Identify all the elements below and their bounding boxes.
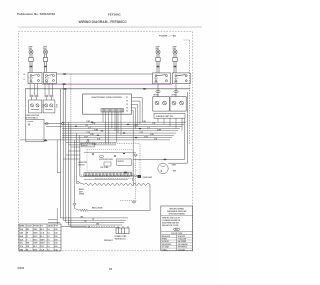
EOC clock box (83, 94, 132, 114)
svg-text:POWER □□—(N): POWER □□—(N) (159, 35, 176, 38)
svg-text:P5: P5 (126, 110, 128, 112)
svg-text:SWITCH: SWITCH (78, 164, 85, 166)
left vertical bus (61, 84, 71, 228)
clock drop wires (103, 112, 121, 144)
bus wire L2 (25, 88, 190, 90)
svg-text:OVEN LIGHT SW: OVEN LIGHT SW (26, 115, 40, 117)
svg-text:105: 105 (54, 243, 57, 245)
junction blob N (62, 83, 66, 85)
console tick marks (92, 153, 125, 157)
harness wire row 6 (62, 132, 176, 134)
console bus stubs (63, 147, 80, 159)
power cord terminal (116, 226, 129, 234)
svg-text:17 OR: 17 OR (139, 132, 143, 134)
svg-text:15 Y: 15 Y (147, 127, 150, 129)
connector oval left A2 (35, 95, 39, 97)
bake junction (76, 182, 79, 184)
oven lamp (158, 163, 168, 173)
console inner relay 1 (81, 143, 94, 147)
bus wire magenta (42, 83, 172, 85)
svg-text:18 BL: 18 BL (150, 134, 154, 136)
svg-text:W: W (26, 233, 28, 235)
wire switch2 to receptacle (45, 84, 53, 101)
switch terminal labels (24, 74, 26, 81)
svg-text:PR PURPLE: PR PURPLE (178, 247, 187, 249)
dark oval on console wire (124, 172, 127, 174)
right flat label box (154, 113, 185, 118)
svg-text:2 R: 2 R (92, 219, 94, 221)
surface unit LR (43, 50, 47, 73)
broil wire (89, 209, 150, 211)
svg-text:105: 105 (54, 229, 57, 231)
svg-text:MOTOR: MOTOR (118, 161, 125, 163)
svg-text:12 BK: 12 BK (86, 121, 90, 123)
svg-text:H1 L1: H1 L1 (30, 78, 34, 80)
svg-text:16: 16 (47, 239, 49, 241)
receptacle box left 1 (29, 100, 42, 113)
svg-text:EL3: EL3 (33, 246, 36, 248)
svg-text:RF REC: RF REC (154, 95, 159, 97)
svg-text:OVEN: OVEN (172, 164, 176, 166)
harness wire row 8 (62, 137, 172, 139)
connector oval right B (174, 91, 178, 93)
svg-text:SURFACE UNIT SW: SURFACE UNIT SW (156, 115, 173, 118)
svg-text:V VIOLET: V VIOLET (178, 249, 185, 251)
bus wire L1 (57, 73, 153, 75)
flat box drops right (158, 118, 182, 131)
svg-text:16 BR: 16 BR (94, 130, 98, 132)
console inner dashed box (87, 150, 133, 172)
dashed stub row (95, 177, 133, 179)
console terminal strip (84, 173, 132, 176)
harness wire row 1 (62, 121, 186, 123)
junction triangle at light box (44, 139, 48, 141)
svg-text:16: 16 (47, 236, 49, 238)
svg-text:6/104: 6/104 (18, 266, 25, 270)
svg-text:H1 L1: H1 L1 (45, 78, 49, 80)
chassis dashed line (188, 40, 190, 145)
surface unit RR (29, 50, 33, 73)
harness wire labels (84, 121, 161, 146)
right vertical runs (182, 92, 188, 163)
svg-text:105: 105 (54, 249, 57, 251)
junction oval B (61, 123, 64, 125)
svg-text:EL2: EL2 (40, 229, 43, 231)
broil element (75, 205, 89, 211)
oven light switch box (26, 119, 44, 142)
cut line (61, 225, 86, 227)
svg-text:SURF: SURF (173, 47, 177, 49)
below console wires (80, 177, 130, 180)
svg-text:EL1: EL1 (40, 236, 43, 238)
junction blob L2a (63, 88, 67, 90)
svg-text:H1 L1: H1 L1 (155, 78, 159, 80)
connector oval left B (45, 95, 49, 97)
svg-text:UNIT: UNIT (41, 104, 43, 108)
svg-text:BL BLUE: BL BLUE (162, 241, 169, 243)
svg-text:BR BROWN: BR BROWN (162, 244, 172, 246)
svg-text:WIRING DIAGRAM - FEF366CC: WIRING DIAGRAM - FEF366CC (79, 20, 128, 24)
header rule (18, 26, 202, 28)
svg-text:SW1: SW1 (33, 229, 37, 231)
svg-text:L1: L1 (24, 74, 26, 76)
harness wire row 4 (62, 128, 180, 130)
wire rswitch1 to receptacle (157, 84, 159, 97)
svg-text:200: 200 (54, 236, 57, 238)
svg-text:TERM BLOCK: TERM BLOCK (115, 238, 127, 240)
infinite switch left 2 (44, 73, 57, 84)
svg-text:17 OR: 17 OR (86, 132, 90, 134)
svg-text:UNIT: UNIT (55, 104, 57, 108)
svg-text:16 BR: 16 BR (157, 130, 161, 132)
console inner relay 2 (117, 159, 132, 166)
node oval mid (134, 154, 137, 156)
bottom harness wires (61, 218, 128, 228)
lamp drop small circle (132, 131, 134, 186)
svg-text:WIRE: WIRE (20, 226, 26, 228)
row junction ovals (75, 122, 142, 141)
dashed bus drop (70, 74, 72, 124)
svg-text:EOC: EOC (33, 236, 38, 238)
unit connector ovals (29, 66, 176, 67)
svg-text:SW3: SW3 (40, 239, 44, 241)
connector oval right A (156, 91, 160, 93)
infinite switch right 1 (153, 73, 171, 84)
svg-text:GAGE: GAGE (47, 225, 53, 228)
harness wire row 3 (46, 125, 182, 127)
wire rswitch2 to receptacle (175, 84, 177, 97)
console oval (99, 155, 103, 157)
infinite switch left 1 (28, 73, 42, 84)
svg-text:15 Y: 15 Y (88, 127, 91, 129)
console small box B (104, 162, 111, 166)
harness wire row 5 (62, 130, 178, 132)
svg-text:TOD 12 BK: TOD 12 BK (100, 167, 109, 169)
svg-text:H1 L1: H1 L1 (174, 78, 178, 80)
wiring table (19, 224, 61, 251)
svg-text:Publication No. 5995A0581: Publication No. 5995A0581 (17, 12, 56, 16)
receptacle box left 2 (43, 100, 55, 113)
wire lightsw to bus (44, 123, 62, 125)
svg-text:EOC: EOC (33, 239, 38, 241)
broil junction (73, 203, 76, 205)
junction blob L1 (63, 73, 67, 75)
console dashed box (80, 144, 140, 176)
svg-text:CLK: CLK (40, 249, 45, 251)
connector oval left A (30, 95, 34, 97)
svg-text:FEF366C: FEF366C (108, 12, 122, 16)
junction blob L2b (143, 88, 147, 90)
receptacle box right 1 (153, 97, 170, 111)
svg-text:19 GY: 19 GY (144, 136, 148, 138)
EOC pin labels (126, 97, 128, 112)
console wire a (84, 152, 136, 154)
svg-text:1 BK: 1 BK (80, 217, 83, 219)
surface unit RF (156, 50, 160, 73)
receptacle box right 2 (170, 97, 186, 111)
svg-text:P H2: P H2 (45, 82, 48, 84)
svg-text:SURF: SURF (43, 47, 47, 49)
svg-text:UNIT: UNIT (79, 191, 83, 193)
svg-text:N: N (24, 79, 25, 81)
svg-text:SELECTOR: SELECTOR (78, 162, 87, 164)
svg-text:GN GREEN: GN GREEN (178, 241, 187, 243)
svg-text:200: 200 (54, 239, 57, 241)
lamp wires (133, 158, 185, 160)
surface unit LF (173, 50, 177, 73)
harness wire row 2 (62, 123, 184, 125)
legend box (161, 206, 193, 251)
svg-text:P3: P3 (126, 104, 128, 106)
svg-text:ELECTRONIC OVEN CONTROL: ELECTRONIC OVEN CONTROL (92, 97, 124, 99)
connector oval left B2 (50, 95, 54, 97)
svg-text:FROM: FROM (33, 226, 39, 228)
harness wire row 10 (66, 142, 116, 144)
table feed stubs (48, 208, 60, 224)
svg-text:12 BK: 12 BK (142, 121, 146, 123)
svg-text:SURF: SURF (156, 47, 160, 49)
svg-text:LF REC: LF REC (172, 95, 177, 97)
svg-text:R RED: R RED (162, 239, 168, 241)
svg-text:18: 18 (109, 267, 113, 271)
svg-text:TB2: TB2 (33, 249, 37, 251)
wire switch1 to receptacle (30, 84, 37, 101)
lamp connector (138, 175, 142, 178)
svg-text:WITH EACH RANGE: WITH EACH RANGE (169, 213, 186, 216)
dashed stub to cord (120, 200, 136, 202)
svg-text:COLR: COLR (26, 226, 32, 228)
svg-text:BELOW FOR COLOR.: BELOW FOR COLOR. (162, 225, 179, 227)
harness wire row 7 (62, 134, 174, 136)
bake element (79, 183, 150, 186)
dashed page frame (19, 32, 193, 251)
svg-text:P1: P1 (126, 97, 128, 99)
dashed drop wire (135, 156, 137, 199)
junction oval A (45, 123, 48, 125)
harness wire row 9 (20, 139, 170, 141)
EOC terminal strip (101, 109, 124, 112)
table feed vertical upper (56, 140, 58, 173)
svg-text:TB1: TB1 (40, 246, 44, 248)
svg-text:FEF366CC: FEF366CC (104, 240, 114, 242)
element feed drops (75, 133, 80, 203)
svg-text:CLK: CLK (40, 233, 45, 235)
svg-text:105: 105 (54, 233, 57, 235)
harness wire row 11 (68, 144, 116, 146)
svg-text:19 GY: 19 GY (84, 136, 88, 138)
svg-text:P2: P2 (126, 101, 128, 103)
svg-text:2600W: 2600W (79, 194, 85, 196)
bake drop (149, 184, 151, 211)
bottom wire labels (80, 217, 99, 229)
svg-text:W WHITE: W WHITE (178, 236, 185, 238)
svg-text:Y YELLOW: Y YELLOW (178, 239, 187, 241)
EOC right exit wires (132, 98, 143, 131)
svg-text:18: 18 (47, 243, 49, 245)
svg-text:200: 200 (54, 246, 57, 248)
svg-text:SURF: SURF (29, 47, 33, 49)
left feed drop (24, 89, 26, 120)
svg-text:18 BL: 18 BL (90, 134, 94, 136)
infinite switch right 2 (172, 73, 190, 84)
svg-text:SW2: SW2 (33, 233, 37, 235)
